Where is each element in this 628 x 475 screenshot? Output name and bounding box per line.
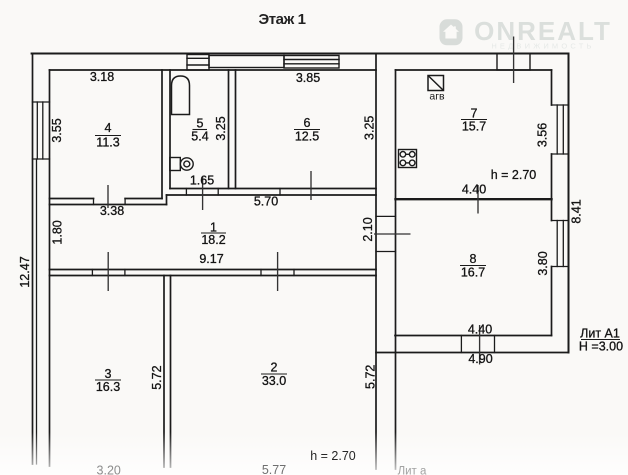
svg-text:5.72: 5.72 [150, 365, 164, 389]
AGV boiler square [428, 76, 444, 91]
wall inner right between windows [551, 154, 553, 221]
tick hall door 3 [107, 252, 109, 291]
svg-text:3.85: 3.85 [296, 71, 320, 85]
svg-text:4: 4 [105, 121, 112, 135]
svg-text:16.3: 16.3 [96, 380, 120, 394]
window left wall [33, 102, 50, 159]
svg-text:4.40: 4.40 [462, 183, 486, 197]
bottom fade [0, 432, 628, 475]
svg-text:3.55: 3.55 [50, 118, 64, 142]
dimension ticks (long thin lines) [108, 37, 514, 365]
tick top right window [513, 37, 515, 84]
svg-text:11.3: 11.3 [96, 136, 119, 150]
svg-text:3.38: 3.38 [100, 204, 124, 218]
svg-text:3.25: 3.25 [214, 116, 228, 140]
svg-text:Лит а: Лит а [398, 466, 427, 475]
door ticks room 2 [261, 270, 294, 276]
svg-text:5.70: 5.70 [254, 195, 278, 209]
svg-text:7: 7 [471, 107, 478, 121]
bathtub [172, 76, 190, 115]
svg-text:33.0: 33.0 [262, 374, 286, 388]
svg-text:4.90: 4.90 [468, 352, 492, 366]
wall outer left [32, 54, 34, 465]
svg-text:18.2: 18.2 [201, 233, 225, 247]
wall inner top (room 7) [396, 69, 552, 71]
tick porch band [479, 325, 481, 365]
tick room 4 door [107, 185, 109, 208]
vent shaft box above room 5 [187, 55, 209, 71]
tick room 7 bottom wall [477, 185, 479, 214]
stove [399, 150, 417, 168]
wall inner right room 8 segment [551, 267, 553, 336]
svg-text:9.17: 9.17 [199, 252, 223, 266]
wall thick left line (room6 right) [375, 54, 377, 470]
wall room 8 bottom [395, 335, 552, 337]
window right wall room 7 [552, 105, 569, 154]
door jambs hallway to room 8 [376, 216, 396, 251]
wall inner right room 7 segment [551, 70, 553, 105]
svg-text:1.65: 1.65 [190, 174, 214, 188]
wall between rooms 3 and 2 [163, 276, 165, 468]
door ticks room 8 to porch [461, 336, 494, 353]
wall outer right [568, 54, 570, 353]
svg-text:5.72: 5.72 [364, 365, 378, 389]
window top right box room 7 [497, 54, 530, 71]
svg-text:3.18: 3.18 [90, 70, 114, 84]
step connector room4/room5 walls [166, 195, 168, 205]
window top plain box [209, 56, 284, 68]
wall thick right line (rooms 7,8 left) [395, 70, 397, 469]
door tick room 6 [279, 189, 281, 196]
wall hallway bottom band lower line [50, 275, 377, 277]
svg-text:16.7: 16.7 [461, 266, 485, 280]
svg-text:12.5: 12.5 [295, 130, 319, 144]
watermark logo ONREALT [440, 19, 463, 45]
svg-text:2.10: 2.10 [361, 217, 375, 241]
wall room 7 bottom [396, 198, 552, 200]
wall between rooms 4 and 5 right line [169, 70, 171, 189]
svg-text:h = 2.70: h = 2.70 [310, 449, 356, 463]
wall hallway bottom band upper line [50, 269, 377, 271]
wall outer top [32, 53, 569, 55]
svg-text:Н =3.00: Н =3.00 [579, 340, 623, 354]
window top lined box room 6 [284, 56, 339, 69]
wall room 4 bottom band upper line with door gap [50, 198, 94, 200]
svg-text:3.56: 3.56 [536, 123, 550, 147]
wall outer left second line [36, 159, 38, 464]
svg-text:агв: агв [429, 91, 445, 103]
svg-text:5.4: 5.4 [191, 130, 208, 144]
door ticks room 3 [92, 270, 125, 276]
svg-text:3.25: 3.25 [363, 116, 377, 140]
dimension labels [18, 70, 623, 394]
svg-text:15.7: 15.7 [462, 120, 486, 134]
svg-text:НЕДВИЖИМОСТЬ: НЕДВИЖИМОСТЬ [491, 42, 594, 51]
wall bottom band lower line (porch top) [376, 352, 569, 354]
wall room 4 bottom band lower line [50, 204, 167, 206]
window right wall room 8 [552, 221, 569, 267]
tick room 6 band [310, 171, 312, 200]
wall rooms 5-6 bottom band upper line [170, 188, 376, 190]
svg-text:8: 8 [470, 252, 477, 266]
door jambs room 4 [94, 199, 126, 205]
svg-text:5: 5 [197, 117, 204, 131]
wall inner left [49, 70, 51, 466]
svg-text:2: 2 [271, 361, 278, 375]
svg-text:4.40: 4.40 [468, 323, 492, 337]
svg-text:1.80: 1.80 [51, 220, 65, 244]
svg-text:Лит А1: Лит А1 [580, 327, 620, 341]
svg-text:12.47: 12.47 [18, 256, 32, 287]
wall rooms 5-6 bottom band lower line [167, 194, 377, 196]
svg-text:8.41: 8.41 [570, 199, 584, 223]
wall between rooms 5 and 6 [228, 70, 230, 189]
tick hall door 2 [277, 252, 279, 291]
toilet [170, 158, 193, 171]
tick bathroom band [202, 177, 204, 210]
wall inner top (rooms 4,5,6) [50, 69, 377, 71]
svg-text:3: 3 [105, 367, 112, 381]
svg-text:h = 2.70: h = 2.70 [491, 168, 537, 182]
door ticks bathroom 5 [186, 189, 218, 196]
wall between rooms 4 and 5 left line [161, 70, 163, 199]
svg-text:3.20: 3.20 [97, 464, 121, 475]
svg-text:6: 6 [304, 116, 311, 130]
tick hallway to room8 door [374, 233, 411, 235]
svg-text:5.77: 5.77 [262, 463, 286, 475]
svg-text:Этаж 1: Этаж 1 [258, 11, 305, 28]
svg-text:3.80: 3.80 [536, 251, 550, 275]
